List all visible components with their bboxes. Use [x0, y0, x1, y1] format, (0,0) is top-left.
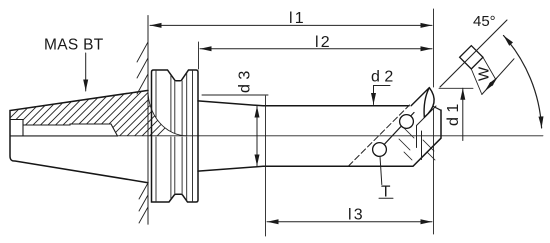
screw hole lower	[373, 143, 387, 157]
svg-text:45°: 45°	[473, 13, 496, 30]
flange with V-groove	[152, 70, 199, 202]
dimension d1	[439, 87, 473, 89]
taper shank hatching	[0, 80, 213, 142]
svg-text:MAS BT: MAS BT	[44, 37, 104, 54]
datum hatch upper	[137, 42, 148, 94]
svg-text:T: T	[381, 184, 391, 201]
hidden line dashed	[349, 105, 410, 166]
angle dimension 45	[504, 36, 542, 129]
end-face section hatching	[399, 127, 435, 160]
dimension l1	[150, 24, 432, 26]
svg-text:d 3: d 3	[237, 71, 254, 93]
svg-text:l3: l3	[348, 207, 365, 224]
pocket section edges	[417, 106, 437, 160]
center axis line	[10, 135, 543, 137]
dimension d3	[202, 94, 268, 96]
pocket floor line	[380, 113, 415, 150]
taper shank outline	[10, 90, 148, 182]
pull-stud bore section	[10, 120, 118, 137]
gauge plane datum line	[147, 16, 149, 225]
svg-text:d 1: d 1	[445, 104, 462, 126]
svg-text:l1: l1	[289, 10, 306, 27]
datum hatch lower	[139, 183, 148, 223]
axis extension line	[440, 20, 507, 87]
45-degree boss	[434, 107, 442, 111]
MAS BT leader arrow	[85, 53, 87, 91]
svg-text:d 2: d 2	[371, 69, 393, 86]
extension line left for l3	[265, 96, 267, 236]
section break curve	[148, 90, 187, 135]
svg-text:l2: l2	[315, 34, 332, 51]
dimension l2	[200, 48, 432, 50]
flange chamfer and groove edge lines	[156, 71, 193, 201]
extension line right	[433, 9, 435, 87]
body outline	[198, 101, 441, 171]
screw hole upper	[400, 115, 414, 129]
dimension W	[471, 57, 495, 93]
label T	[379, 156, 393, 198]
dimension l3	[267, 221, 432, 223]
svg-text:W: W	[476, 66, 493, 81]
insert square W	[460, 46, 483, 69]
